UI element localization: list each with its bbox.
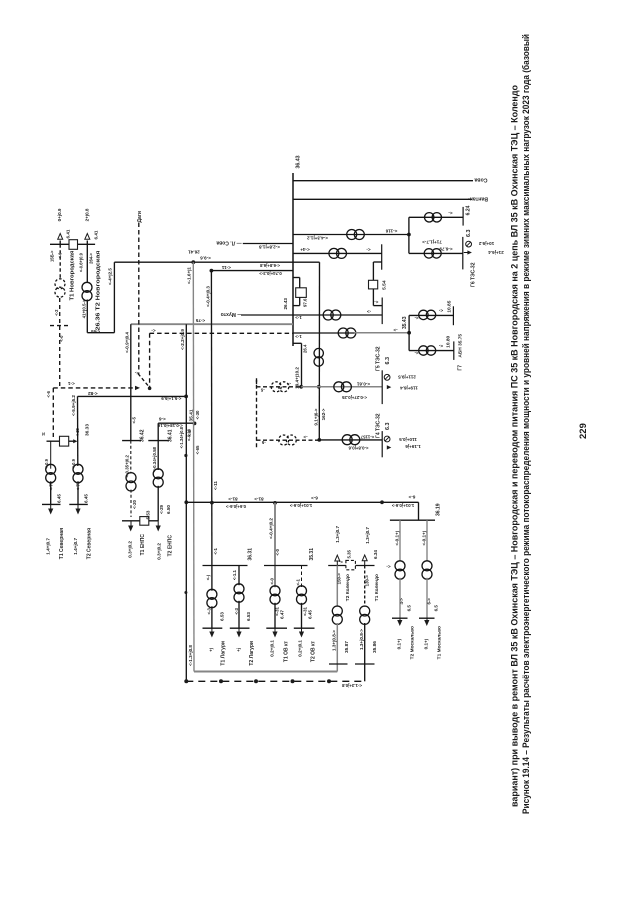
transformer T-Muhto <box>323 310 333 320</box>
svg-text:6.53: 6.53 <box>220 612 225 621</box>
wire left long vertical <box>185 324 187 681</box>
tie endpoint <box>148 387 152 391</box>
bus 6.24 <box>462 207 464 226</box>
transformer T1 ENPS <box>126 473 136 483</box>
svg-text:<-0.61: <-0.61 <box>356 381 370 386</box>
wire below box <box>372 289 374 306</box>
svg-text:Т1 Колендо: Т1 Колендо <box>374 574 380 601</box>
svg-text:6->: 6-> <box>426 598 431 605</box>
wire gray long down <box>192 262 195 671</box>
svg-text:<-116: <-116 <box>385 229 397 234</box>
svg-text:Т2 Колендо: Т2 Колендо <box>345 574 351 601</box>
svg-text:1.3+j0.7: 1.3+j0.7 <box>365 527 370 544</box>
svg-text:35.87: 35.87 <box>344 641 350 653</box>
svg-text:6.41: 6.41 <box>94 230 99 239</box>
wire to bus <box>211 270 293 272</box>
svg-text:1.01+j0.6->: 1.01+j0.6-> <box>289 503 312 508</box>
svg-text:36.33: 36.33 <box>85 424 91 436</box>
wire bracket vertical <box>408 217 410 253</box>
svg-text:-5: -5 <box>260 388 264 393</box>
svg-text:6->: 6-> <box>408 494 415 499</box>
svg-text:->: -> <box>303 434 308 439</box>
svg-text:И: И <box>42 432 45 437</box>
bus bracket lower <box>293 342 302 344</box>
svg-text:Т1 Лагури: Т1 Лагури <box>221 641 227 666</box>
svg-text:<-0.1+j: <-0.1+j <box>421 531 426 546</box>
svg-text:6.41: 6.41 <box>66 229 71 238</box>
load arrow OV2 <box>301 628 303 631</box>
transformer T2 ENPS <box>153 469 163 479</box>
junction mid2 <box>317 438 321 442</box>
transformer T-G6 <box>424 249 433 258</box>
transformer T1 OV <box>270 586 280 596</box>
svg-text:<-9: <-9 <box>187 429 192 436</box>
svg-text:110+j0.5: 110+j0.5 <box>399 437 417 442</box>
svg-text:<-: <- <box>438 308 443 313</box>
wire dashed feeder 2 <box>256 378 258 449</box>
svg-text:Сова: Сова <box>474 177 487 183</box>
svg-text:71+j1.7->: 71+j1.7-> <box>422 240 442 245</box>
bus ENPS left <box>122 520 140 522</box>
svg-text:Т1 Северная: Т1 Северная <box>59 528 65 559</box>
svg-text:<-4+: <-4+ <box>300 247 310 252</box>
svg-text:21+j6.4: 21+j6.4 <box>488 250 504 255</box>
generator G4 symbol <box>384 436 390 442</box>
svg-text:Рисунок 19.14 – Результаты рас: Рисунок 19.14 – Результаты расчётов элек… <box>521 34 531 814</box>
svg-text:36.41: 36.41 <box>167 429 173 442</box>
svg-text:<-: <- <box>414 316 419 321</box>
feeder T2 Moskalvo <box>399 520 401 561</box>
transformer G5 <box>334 382 344 392</box>
svg-text:<-1: <-1 <box>67 381 74 386</box>
svg-text:41+j0.5->: 41+j0.5-> <box>82 299 87 318</box>
wire branch 35.43 <box>293 332 355 334</box>
svg-text:2+j0.8: 2+j0.8 <box>84 208 89 221</box>
svg-text:Г6 ТЭС-32: Г6 ТЭС-32 <box>471 262 477 287</box>
transformer mid vertical <box>314 348 323 357</box>
bus tick Kolendo2 <box>329 663 348 665</box>
wire G5 to bus gray <box>301 386 382 388</box>
svg-text:<-20: <-20 <box>132 499 137 508</box>
svg-text:<-0.27+j0.25: <-0.27+j0.25 <box>341 395 366 400</box>
svg-text:<-: <- <box>134 370 139 375</box>
load arrow T1 Sev <box>50 504 52 509</box>
transformer T1 Kolendo <box>360 606 370 616</box>
svg-text:-5: -5 <box>261 440 265 445</box>
svg-text:<-: <- <box>374 299 379 304</box>
feeder T2 OV dashed <box>301 566 303 588</box>
svg-text:6.53: 6.53 <box>246 612 251 621</box>
wire line Sova <box>293 180 473 182</box>
feeder T2 ENPS wire <box>158 422 194 424</box>
wire box Severnaya link <box>47 440 60 442</box>
feeder 275 transformer <box>274 566 276 588</box>
load arrow OV1 <box>274 628 276 631</box>
svg-text:6.34: 6.34 <box>373 550 378 559</box>
wire dashed 1 left <box>150 332 293 334</box>
svg-text:<-0: <-0 <box>275 548 280 555</box>
svg-text:35.31: 35.31 <box>309 548 315 561</box>
bus tick OV2 <box>294 627 315 629</box>
bus G6 TES-32 <box>462 237 464 270</box>
T1 Novgorodskaya dashed feeder <box>59 244 61 278</box>
svg-text:Вантан-: Вантан- <box>468 195 488 201</box>
svg-text:<-6: <-6 <box>158 417 165 422</box>
junction G7 <box>407 331 411 335</box>
transformer T-35.43 <box>338 328 348 338</box>
wire node 26.41 line <box>114 261 319 263</box>
svg-text:130->: 130-> <box>365 575 370 587</box>
transformer T1 Mosk <box>422 561 432 571</box>
junction A <box>407 233 411 237</box>
svg-text:<-: <- <box>386 564 391 569</box>
svg-text:<-5.9+j5.2: <-5.9+j5.2 <box>71 395 76 416</box>
bus 10.80 <box>453 341 455 360</box>
junction small <box>184 591 187 594</box>
svg-text:6.45: 6.45 <box>308 610 313 619</box>
svg-text:Г5 ТЭС-32: Г5 ТЭС-32 <box>376 346 382 371</box>
generator G5 symbol <box>384 374 390 380</box>
svg-text:<-1.3+j0.8: <-1.3+j0.8 <box>188 645 193 666</box>
wire stub L.Sova <box>243 243 293 245</box>
wire gray bottom return <box>194 671 337 673</box>
arrow G4 <box>387 445 392 449</box>
bus tick T2 Sev <box>69 503 88 505</box>
svg-text:<-65: <-65 <box>90 329 99 334</box>
PS Novgorodskaya T1 arrow <box>58 234 63 240</box>
svg-text:0.3+j0.2: 0.3+j0.2 <box>157 543 162 560</box>
svg-text:<-30: <-30 <box>195 410 200 419</box>
wire to bus 10.85 <box>409 314 453 316</box>
svg-text:<-0.1+j: <-0.1+j <box>394 531 399 546</box>
svg-text:<-11: <-11 <box>213 481 218 491</box>
svg-text:Т1 Новгородская: Т1 Новгородская <box>69 251 75 301</box>
junction 26.41 <box>191 260 195 264</box>
svg-text:<-1.34+j0.8: <-1.34+j0.8 <box>179 426 184 448</box>
bus G5 TES-32 <box>381 370 383 404</box>
svg-text:35.86: 35.86 <box>372 641 378 653</box>
svg-text:<-: <- <box>366 247 371 252</box>
svg-text:1.3+j0.8->: 1.3+j0.8-> <box>359 629 364 650</box>
wire tap to reactor box <box>373 261 381 263</box>
svg-text:Т2 ЕНПС: Т2 ЕНПС <box>168 535 174 557</box>
svg-text:0.1+j: 0.1+j <box>424 639 429 649</box>
svg-text:36.42: 36.42 <box>140 429 146 442</box>
T2 arrow <box>85 234 90 240</box>
svg-text:1.4+j0.7: 1.4+j0.7 <box>46 538 51 555</box>
junction G5 wire <box>299 385 303 389</box>
svg-text:<-: <- <box>414 351 419 356</box>
svg-text:<-1.6+j1: <-1.6+j1 <box>186 267 191 285</box>
svg-text:<-6.79: <-6.79 <box>439 246 453 251</box>
svg-text:229: 229 <box>578 423 589 439</box>
svg-text:Т1 ОВ кт: Т1 ОВ кт <box>284 640 290 662</box>
svg-text:<-1: <-1 <box>213 547 218 554</box>
svg-text:1.4+j0.7: 1.4+j0.7 <box>73 538 78 555</box>
feeder T1 Kolendo <box>364 566 366 607</box>
svg-text:26.4: 26.4 <box>302 344 307 353</box>
svg-text:->: -> <box>393 328 398 333</box>
wire lower to bus G6 <box>409 252 463 254</box>
svg-text:<-0: <-0 <box>269 577 274 584</box>
svg-text:9.1+j6->: 9.1+j6-> <box>313 408 318 425</box>
transformer T2 Kolendo <box>332 606 342 616</box>
breaker box 26.33 <box>60 436 69 446</box>
svg-text:<-3: <-3 <box>207 607 212 614</box>
junction dots on 81 <box>184 500 188 504</box>
svg-text:Т1 ЕНПС: Т1 ЕНПС <box>140 534 146 556</box>
svg-text:<-75: <-75 <box>195 318 205 323</box>
wire vertical 319 <box>318 262 320 440</box>
load arrow T2 Mosk <box>399 618 401 620</box>
svg-text:264->: 264-> <box>88 252 93 263</box>
svg-text:6->: 6-> <box>311 495 318 500</box>
svg-text:119+j6.4: 119+j6.4 <box>400 386 418 391</box>
svg-text:0+j0.9: 0+j0.9 <box>57 208 62 221</box>
wire long 81 <box>186 501 418 503</box>
svg-text:<-: <- <box>338 560 342 565</box>
svg-text:211+j9.5: 211+j9.5 <box>398 375 416 380</box>
feeder Mirny long vertical <box>210 271 213 566</box>
svg-text:<-0.34+j0.58: <-0.34+j0.58 <box>152 446 157 471</box>
transformer dashed G4 <box>279 435 289 445</box>
svg-text:6.5: 6.5 <box>407 605 412 612</box>
svg-text:<-: <- <box>151 328 156 333</box>
svg-text:5.54: 5.54 <box>381 280 387 290</box>
bus tick 36.41 <box>148 440 169 442</box>
svg-text:<-0: <-0 <box>57 252 62 259</box>
svg-text:5.35: 5.35 <box>346 549 351 558</box>
svg-text:6.47: 6.47 <box>280 610 285 619</box>
bus tick Laguri1 <box>203 627 223 629</box>
node 36.43 main bus <box>292 173 294 346</box>
wire G4 to bus <box>319 439 382 441</box>
breaker box ENPS <box>140 517 149 526</box>
bus G4 TES-32 <box>381 431 383 457</box>
svg-text:4->: 4-> <box>399 598 404 605</box>
wire gray to G7 <box>355 332 409 334</box>
svg-text:6.45: 6.45 <box>56 494 61 503</box>
svg-text:+j: +j <box>236 648 241 652</box>
diagonal dashed Dagi tie <box>138 374 150 388</box>
svg-text:162->: 162-> <box>321 408 326 420</box>
bus tick Kolendo1 <box>355 663 375 665</box>
svg-text:0.2+j0.1: 0.2+j0.1 <box>270 640 275 657</box>
svg-text:<-9.6: <-9.6 <box>200 256 211 261</box>
svg-text:10+j9.2: 10+j9.2 <box>478 241 494 246</box>
svg-text:1.3+j0.7: 1.3+j0.7 <box>335 526 340 543</box>
line Dagi dashed <box>138 223 140 374</box>
dashed tick <box>50 325 69 327</box>
svg-text:6.50: 6.50 <box>166 505 171 514</box>
svg-text:<-1.3+j0.8: <-1.3+j0.8 <box>341 683 362 688</box>
svg-text:26.36 Т2 Новгородская: 26.36 Т2 Новгородская <box>96 251 102 331</box>
load arrow T1 Mosk <box>426 618 428 620</box>
T2 Novgorodskaya feeder <box>86 244 88 282</box>
svg-text:Т2 Лагури: Т2 Лагури <box>249 641 255 666</box>
svg-text:<-: <- <box>438 344 443 349</box>
transformer T1 Laguri <box>207 589 217 599</box>
svg-text:26.41: 26.41 <box>188 249 200 254</box>
feeder T2 Kolendo <box>336 566 338 607</box>
corner to 36.19 <box>418 502 420 520</box>
svg-text:<-0.4+j0.2: <-0.4+j0.2 <box>269 518 274 539</box>
transformer on branch <box>347 230 357 240</box>
bus tick T1 Sev <box>42 503 61 505</box>
svg-text:<-4+j2.5: <-4+j2.5 <box>108 268 113 286</box>
svg-text:+j: +j <box>209 648 214 652</box>
svg-text:вариант) при выводе в ремонт В: вариант) при выводе в ремонт ВЛ 35 кВ Ох… <box>510 85 520 807</box>
junction 82 <box>184 395 188 399</box>
bus tick Laguri2 <box>230 627 250 629</box>
arrow into bus G6 <box>464 252 468 254</box>
svg-text:26.43: 26.43 <box>283 298 288 310</box>
transformer T2 <box>329 248 339 258</box>
svg-text:<-: <- <box>448 210 453 215</box>
svg-text:6.3: 6.3 <box>385 357 391 365</box>
wire line Vantan <box>293 198 473 200</box>
bus aux2 <box>381 298 383 325</box>
svg-text:81->: 81-> <box>228 496 238 501</box>
transformer T-10.85 <box>419 310 428 319</box>
svg-text:6.45: 6.45 <box>84 494 89 503</box>
transformer T2 Mosk <box>395 561 405 571</box>
transformer dashed G5 <box>271 382 281 392</box>
svg-text:<-29: <-29 <box>159 504 164 513</box>
feeder T1 ENPS vertical <box>130 324 132 440</box>
bypass box on bus <box>293 277 300 279</box>
svg-text:<-82: <-82 <box>88 390 98 396</box>
svg-text:15Б->: 15Б-> <box>49 250 54 262</box>
svg-text:36.43: 36.43 <box>295 155 301 168</box>
load arrow T1 ENPS <box>130 521 132 526</box>
svg-text:<-65: <-65 <box>195 445 200 454</box>
transformer T-6.24 <box>425 213 434 222</box>
wire to bus 10.80 <box>409 350 454 352</box>
svg-text:Т2 ОВ кт: Т2 ОВ кт <box>311 640 317 662</box>
transformer T2 OV <box>297 586 307 596</box>
gen arrow T2 Kolendo <box>335 555 340 561</box>
wire branch Muhto <box>241 314 382 316</box>
svg-text:5.53: 5.53 <box>146 510 151 519</box>
svg-text:35.43: 35.43 <box>402 316 408 329</box>
svg-text:<-2.8+j1.8: <-2.8+j1.8 <box>259 244 280 249</box>
wire T2 down and across <box>86 300 88 333</box>
svg-text:1.01+j0.6->: 1.01+j0.6-> <box>391 503 414 508</box>
wire upper to bus 6.24 <box>409 216 463 218</box>
bus 36.31 <box>203 565 248 567</box>
svg-text:Г4 ТЭС-32: Г4 ТЭС-32 <box>376 413 382 438</box>
bus tick 36.42 <box>122 440 141 442</box>
load arrow T2 ENPS <box>157 521 159 526</box>
bus tick T2 Mosk <box>392 617 408 619</box>
wire T1 Novg dashed down <box>59 298 61 388</box>
svg-text:<-j: <-j <box>206 575 211 580</box>
transformer T1 Novg dashed <box>55 279 65 289</box>
bus tick T1 Mosk <box>419 617 435 619</box>
feeder T2 Laguri <box>238 566 240 586</box>
bus tick OV1 <box>266 627 287 629</box>
svg-text:— Л. Сова: — Л. Сова <box>216 240 241 246</box>
svg-text:Даги: Даги <box>137 211 143 223</box>
svg-text:<-6.8+j6.8: <-6.8+j6.8 <box>259 263 280 268</box>
wire G7 bracket <box>408 315 410 350</box>
transformer T-10.80 <box>419 346 428 355</box>
transformer T2 Laguri <box>234 584 244 594</box>
svg-text:97.6: 97.6 <box>302 298 307 307</box>
transformer T2 Novg <box>82 282 92 292</box>
svg-text:<-2: <-2 <box>54 309 59 316</box>
svg-text:0.3+j0.2: 0.3+j0.2 <box>128 541 133 558</box>
svg-text:<-1.1: <-1.1 <box>232 569 237 580</box>
breaker box Novg <box>69 240 78 250</box>
junction small2 <box>184 454 187 457</box>
junction mid1 <box>317 385 321 389</box>
svg-text:->: -> <box>367 309 372 314</box>
svg-text:Т2 Северная: Т2 Северная <box>86 528 92 559</box>
wire G5 feeder gray <box>256 380 258 387</box>
junction on gray line <box>193 422 197 426</box>
svg-text:<-5: <-5 <box>131 416 136 423</box>
svg-text:10.80: 10.80 <box>446 335 452 347</box>
svg-text:<-4.3+j1.2: <-4.3+j1.2 <box>307 235 328 240</box>
arrow G5 <box>387 385 392 389</box>
svg-text:<-0.6+j0.9: <-0.6+j0.9 <box>78 252 83 272</box>
wire 82 horizontal <box>78 395 187 397</box>
svg-text:0.6+j0.6->: 0.6+j0.6-> <box>226 504 246 509</box>
generator G6 symbol <box>466 241 472 247</box>
dashed vertical tie <box>149 333 151 388</box>
svg-text:<-0.4+j0.3: <-0.4+j0.3 <box>205 286 210 307</box>
svg-text:1.19+j6: 1.19+j6 <box>405 444 421 449</box>
svg-text:<-0: <-0 <box>59 335 64 342</box>
svg-text:<-2.2+j0.9: <-2.2+j0.9 <box>180 329 185 350</box>
svg-text:6.24: 6.24 <box>466 205 472 215</box>
svg-text:1->: 1-> <box>295 315 302 320</box>
svg-text:0.74+j0.3->: 0.74+j0.3-> <box>259 271 282 276</box>
breaker box Kolendo dashed <box>346 560 356 569</box>
bus 35.31 <box>264 565 308 567</box>
svg-text:<-5.1+j5.9: <-5.1+j5.9 <box>161 396 182 401</box>
svg-text:6.3: 6.3 <box>385 423 391 431</box>
wire branch to TES-32 junction <box>293 234 409 236</box>
load arrow Laguri1 <box>211 628 213 631</box>
svg-text:<-3: <-3 <box>234 607 239 614</box>
wire 82 vertical <box>77 396 79 466</box>
wire gray feeder 275 <box>274 503 276 566</box>
svg-text:0.2+j0.1: 0.2+j0.1 <box>298 640 303 657</box>
svg-text:0.1+j: 0.1+j <box>397 639 402 649</box>
svg-text:АБН 35.75: АБН 35.75 <box>457 334 463 358</box>
svg-text:<-1157: <-1157 <box>360 434 374 439</box>
svg-text:->: -> <box>287 382 292 387</box>
svg-text:— Мухто: — Мухто <box>221 311 243 317</box>
bus Kolendo <box>328 565 346 567</box>
feeder T1 Moskalvo <box>426 520 428 561</box>
wire branch bus to G6b <box>293 252 382 254</box>
svg-text:Г7: Г7 <box>458 365 464 371</box>
svg-text:Т2 Москальво: Т2 Москальво <box>409 626 415 659</box>
svg-text:150->: 150-> <box>336 573 341 585</box>
bus aux1 <box>381 244 383 269</box>
svg-text:6.3: 6.3 <box>466 230 472 238</box>
transformer G4 <box>342 435 352 445</box>
gen arrow T1 Kolendo <box>362 555 367 561</box>
svg-text:<-11: <-11 <box>221 265 231 270</box>
svg-text:1->: 1-> <box>295 334 302 339</box>
feeder T1 Laguri <box>211 566 213 591</box>
svg-text:36.31: 36.31 <box>247 548 253 561</box>
